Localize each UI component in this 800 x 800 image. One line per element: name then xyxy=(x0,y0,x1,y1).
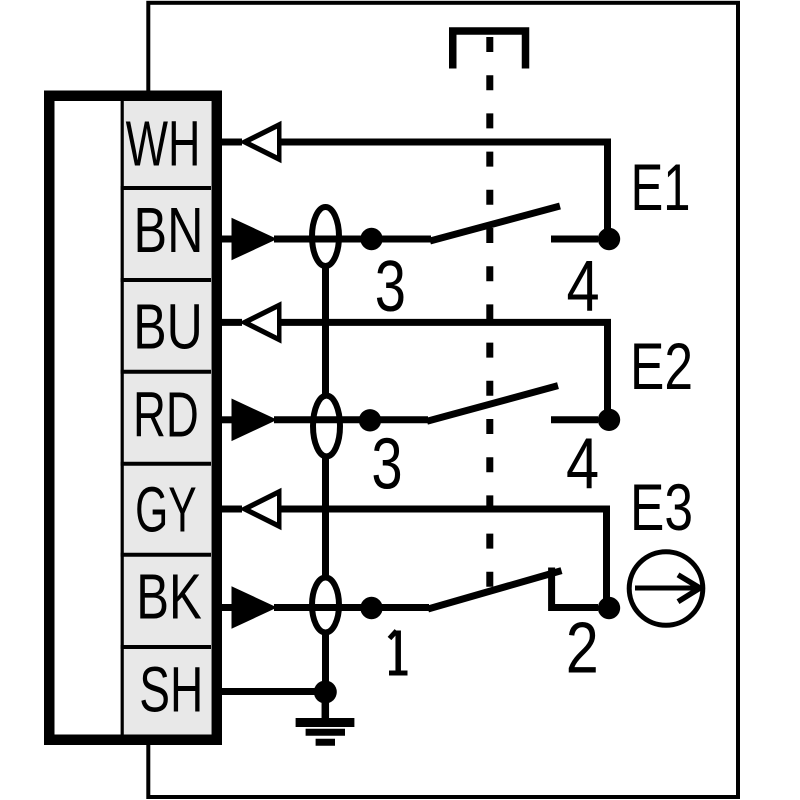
svg-text:GY: GY xyxy=(135,473,197,545)
svg-text:E2: E2 xyxy=(630,329,693,403)
svg-text:3: 3 xyxy=(375,247,406,327)
svg-text:BK: BK xyxy=(136,561,202,633)
svg-text:RD: RD xyxy=(133,378,199,450)
svg-text:WH: WH xyxy=(126,107,201,179)
svg-text:4: 4 xyxy=(566,425,599,505)
svg-text:SH: SH xyxy=(139,654,203,726)
svg-text:3: 3 xyxy=(371,425,402,505)
svg-text:4: 4 xyxy=(567,247,600,327)
svg-text:BN: BN xyxy=(134,194,204,266)
svg-text:E1: E1 xyxy=(631,150,691,224)
svg-text:2: 2 xyxy=(566,609,599,689)
svg-text:E3: E3 xyxy=(630,470,693,544)
svg-text:BU: BU xyxy=(133,290,203,362)
